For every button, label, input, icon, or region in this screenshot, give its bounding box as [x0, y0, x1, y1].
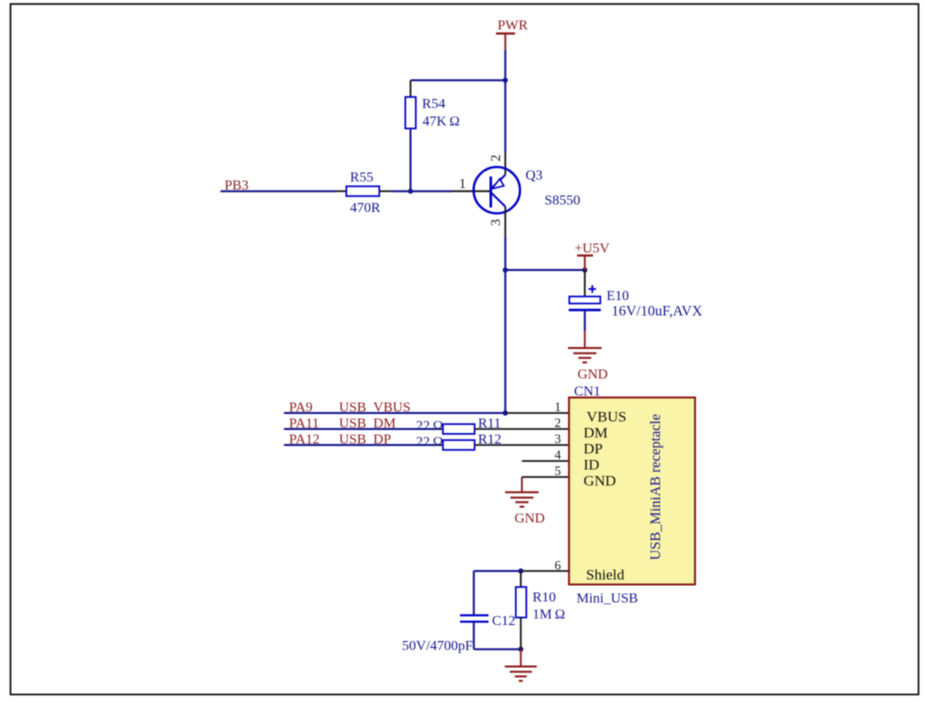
svg-text:S8550: S8550 — [545, 194, 581, 209]
svg-text:GND: GND — [578, 368, 608, 383]
svg-text:+U5V: +U5V — [575, 242, 610, 257]
svg-text:R12: R12 — [478, 432, 501, 447]
svg-text:470R: 470R — [350, 201, 381, 216]
svg-text:GND: GND — [584, 474, 617, 490]
svg-text:16V/10uF,AVX: 16V/10uF,AVX — [612, 304, 703, 320]
svg-text:R55: R55 — [350, 171, 373, 186]
svg-text:22 Ω: 22 Ω — [416, 435, 443, 450]
svg-text:R10: R10 — [533, 591, 556, 606]
svg-text:GND: GND — [515, 512, 545, 527]
svg-text:USB_MiniAB receptacle: USB_MiniAB receptacle — [648, 414, 664, 560]
svg-text:5: 5 — [555, 463, 562, 478]
svg-text:1: 1 — [459, 177, 466, 192]
svg-text:DM: DM — [584, 426, 608, 442]
svg-text:C12: C12 — [492, 614, 515, 629]
svg-text:E10: E10 — [607, 289, 630, 304]
svg-text:VBUS: VBUS — [587, 410, 627, 426]
svg-text:50V/4700pF: 50V/4700pF — [402, 639, 473, 654]
svg-text:1M Ω: 1M Ω — [533, 608, 566, 623]
svg-text:Q3: Q3 — [526, 169, 543, 184]
svg-text:22 Ω: 22 Ω — [416, 419, 443, 434]
svg-text:3: 3 — [489, 219, 504, 226]
svg-text:3: 3 — [555, 431, 562, 446]
svg-text:2: 2 — [555, 415, 562, 430]
svg-text:1: 1 — [555, 399, 562, 414]
svg-text:47K Ω: 47K Ω — [423, 115, 460, 130]
svg-text:R11: R11 — [478, 416, 501, 431]
svg-text:DP: DP — [584, 442, 603, 458]
svg-text:ID: ID — [584, 458, 600, 474]
svg-text:PWR: PWR — [498, 19, 529, 34]
svg-text:4: 4 — [555, 447, 562, 462]
svg-text:R54: R54 — [422, 97, 445, 112]
svg-text:Mini_USB: Mini_USB — [577, 592, 638, 607]
svg-text:2: 2 — [489, 155, 504, 162]
svg-text:Shield: Shield — [586, 568, 625, 584]
